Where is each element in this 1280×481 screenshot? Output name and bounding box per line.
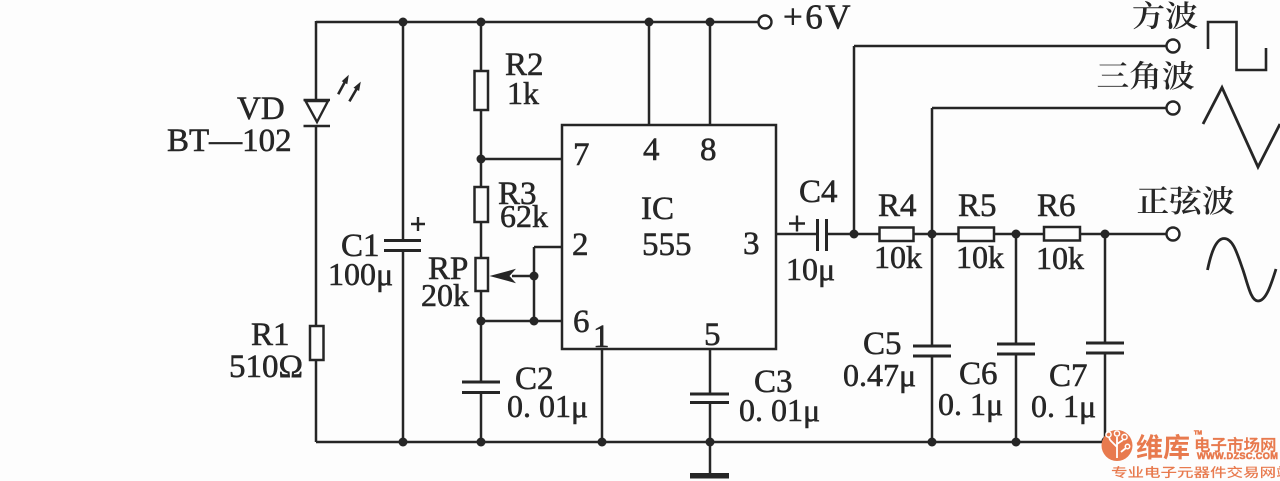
junction node C6 (1012, 230, 1021, 239)
junction node squarewave (850, 230, 859, 239)
pin 8 label (700, 132, 717, 168)
junction top C1 (399, 18, 408, 27)
wire pin 8 (709, 22, 712, 126)
svg-text:5: 5 (704, 317, 721, 353)
svg-text:510Ω: 510Ω (229, 349, 303, 385)
label 10k R5 (956, 239, 1004, 275)
svg-text:0.47μ: 0.47μ (843, 357, 916, 393)
resistor R1 (310, 326, 324, 360)
wire to pin 2 (534, 246, 563, 249)
wire C4 to R4 (826, 233, 880, 236)
trianglewave icon (1203, 88, 1280, 168)
svg-text:555: 555 (642, 227, 692, 263)
svg-text:BT—102: BT—102 (167, 123, 292, 159)
wire squarewave horizontal (854, 45, 1167, 48)
wire C6 upper (1015, 234, 1018, 344)
label 10k R6 (1036, 240, 1084, 276)
svg-text:7: 7 (573, 137, 590, 173)
pin 3 label (743, 226, 760, 262)
svg-text:R4: R4 (878, 188, 917, 224)
terminal sinewave (1167, 228, 1180, 241)
label VD (237, 91, 285, 127)
junction wiper (530, 272, 539, 281)
capacitor C5 (913, 346, 951, 356)
pin 2 label (572, 227, 589, 263)
wire pin 3 (775, 233, 818, 236)
svg-text:+6V: +6V (783, 0, 853, 37)
svg-text:0. 1μ: 0. 1μ (1031, 388, 1096, 424)
svg-text:10μ: 10μ (786, 251, 835, 287)
svg-text:VD: VD (237, 91, 285, 127)
label 0.1u C6 (938, 386, 1003, 422)
svg-text:62k: 62k (500, 198, 548, 234)
label 510ohm (229, 349, 303, 385)
svg-text:100μ: 100μ (328, 256, 393, 292)
wire wiper vertical (533, 247, 536, 321)
pin 7 label (573, 137, 590, 173)
label C3 (754, 364, 793, 400)
svg-text:4: 4 (643, 132, 660, 168)
wire C5 upper (931, 234, 934, 346)
capacitor C3 (690, 394, 729, 403)
pin 4 label (643, 132, 660, 168)
label 10u (786, 251, 835, 287)
label 10k R4 (874, 239, 922, 275)
label C1 (341, 228, 380, 264)
pin 5 label (704, 317, 721, 353)
capacitor C7 (1086, 343, 1124, 353)
label R6 (1037, 188, 1076, 224)
logo weiku text (1137, 434, 1189, 460)
label C4 (799, 174, 838, 210)
label R2 (505, 47, 544, 83)
label 0.01u C3 (739, 392, 820, 428)
svg-text:1k: 1k (507, 75, 539, 111)
wire trianglewave vertical (931, 108, 934, 234)
capacitor C4 (789, 216, 827, 252)
junction bottom C5 (928, 438, 937, 447)
resistor R2 (475, 71, 489, 110)
svg-text:8: 8 (700, 132, 717, 168)
junction wiper bottom (530, 317, 539, 326)
junction node C7 (1101, 230, 1110, 239)
logo TM (1194, 431, 1202, 437)
capacitor C2 (462, 382, 500, 393)
junction top pin8 (706, 18, 715, 27)
junction node trianglewave (928, 230, 937, 239)
svg-text:10k: 10k (956, 239, 1004, 275)
label RP (428, 251, 468, 287)
label R3 (498, 176, 537, 212)
logo slogan (1112, 466, 1280, 478)
RP wiper arrow (490, 269, 536, 283)
wire to pin 7 (481, 158, 563, 161)
label IC (641, 191, 674, 227)
wire left vertical middle (315, 126, 318, 327)
svg-text:10k: 10k (874, 239, 922, 275)
svg-text:3: 3 (743, 226, 760, 262)
junction bottom C7 (1102, 437, 1111, 446)
svg-text:6: 6 (573, 304, 590, 340)
label 555 (642, 227, 692, 263)
wire pin 4 (648, 22, 651, 126)
resistor R3 (475, 187, 489, 222)
label C6 (959, 356, 998, 392)
label 1k (507, 75, 539, 111)
wire R5 to R6 (994, 233, 1044, 236)
wire C7 upper (1104, 234, 1107, 343)
label zhengxianbo (1138, 186, 1234, 215)
pin 1 label (593, 319, 610, 355)
junction node pin6 (477, 317, 486, 326)
svg-text:0. 01μ: 0. 01μ (739, 392, 820, 428)
label BT-102 (167, 123, 292, 159)
resistor R4 (880, 228, 914, 242)
junction top pin4 (645, 18, 654, 27)
wire RP bottom lead (480, 290, 483, 382)
power rail +6V wire (316, 21, 758, 24)
label 0.1u C7 (1031, 388, 1096, 424)
label 20k (421, 277, 469, 313)
svg-text:10k: 10k (1036, 240, 1084, 276)
resistor R5 (959, 228, 995, 242)
label C5 (863, 326, 902, 362)
pin 6 label (573, 304, 590, 340)
wire squarewave vertical (853, 46, 856, 234)
wire C1 lower (402, 250, 405, 442)
junction bottom pin5 (706, 438, 715, 447)
svg-text:IC: IC (641, 191, 674, 227)
capacitor C1 (384, 217, 425, 251)
label R5 (958, 188, 997, 224)
junction bottom pin1 (598, 438, 607, 447)
wire R6 to terminal (1080, 233, 1167, 236)
svg-text:20k: 20k (421, 277, 469, 313)
wire C5 lower (931, 356, 934, 442)
svg-text:R6: R6 (1037, 188, 1076, 224)
label +6V (783, 0, 853, 37)
wire to pin 6 (481, 320, 563, 323)
terminal squarewave (1167, 40, 1180, 53)
op-amp U1 IC555 box (562, 125, 776, 349)
resistor R6 (1044, 227, 1080, 241)
label sanjiaobo (1098, 61, 1194, 90)
ground rail bottom wire (316, 441, 1107, 444)
wire C1 upper (402, 22, 405, 240)
label C2 (515, 361, 554, 397)
wire R2 top lead (480, 22, 483, 72)
label 0.01u C2 (507, 388, 588, 424)
svg-text:TM: TM (1194, 431, 1202, 437)
wire R3-RP (480, 221, 483, 259)
junction bottom C1 (399, 438, 408, 447)
wire pin 1 (601, 348, 604, 442)
wire trianglewave horizontal (932, 107, 1167, 110)
terminal trianglewave (1167, 102, 1180, 115)
wire C2 bottom lead (480, 392, 483, 442)
junction bottom C6 (1012, 438, 1021, 447)
wire pin 5 lower (709, 402, 712, 442)
junction node pin7 (477, 155, 486, 164)
potentiometer RP (476, 258, 489, 291)
logo url (1197, 451, 1278, 461)
junction top R2 (477, 18, 486, 27)
svg-text:C4: C4 (799, 174, 838, 210)
logo weiku disc (1102, 430, 1133, 461)
ground symbol (690, 442, 729, 479)
label 100u (328, 256, 393, 292)
svg-text:R5: R5 (958, 188, 997, 224)
svg-text:2: 2 (572, 227, 589, 263)
squarewave icon (1208, 22, 1266, 70)
junction bottom C2 (477, 438, 486, 447)
label C7 (1049, 358, 1088, 394)
label R4 (878, 188, 917, 224)
wire left vertical bottom (315, 359, 318, 442)
wire C7 lower (1104, 353, 1107, 441)
label R1 (251, 317, 290, 353)
svg-text:R1: R1 (251, 317, 290, 353)
logo dianzishichangwang (1196, 437, 1276, 453)
svg-text:WWW.DZSC.COM: WWW.DZSC.COM (1197, 451, 1278, 461)
wire left vertical top (315, 21, 318, 101)
capacitor C6 (997, 344, 1035, 354)
power terminal +6V (759, 16, 772, 29)
wire R4 to R5 (913, 233, 959, 236)
label 62k (500, 198, 548, 234)
sinewave icon (1208, 239, 1277, 302)
label 0.47u (843, 357, 916, 393)
wire pin 5 upper (709, 348, 712, 394)
LED VD BT-102 (304, 75, 361, 126)
svg-text:0. 1μ: 0. 1μ (938, 386, 1003, 422)
wire R2-R3 (480, 109, 483, 188)
svg-text:0. 01μ: 0. 01μ (507, 388, 588, 424)
label fangbo (1133, 1, 1197, 29)
wire C6 lower (1015, 354, 1018, 442)
